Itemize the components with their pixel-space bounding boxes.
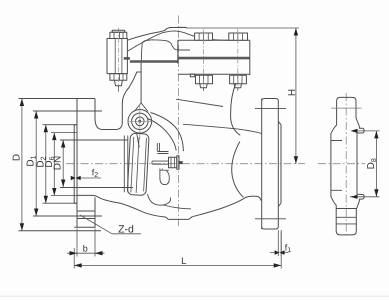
L arrows: [74, 263, 82, 267]
arrowheads: [20, 28, 379, 268]
cover bolt 2 stud end: [234, 84, 241, 91]
disc hub: nut: [169, 157, 177, 168]
b dimension line with tails: [67, 252, 105, 254]
D arrows: [20, 99, 24, 107]
seat ring: [124, 136, 128, 193]
side view bottom stub lines: [336, 209, 356, 224]
body flange under cover bottom edge: [137, 72, 250, 74]
right flange bolt lines: [255, 109, 286, 219]
disc plate: [127, 133, 149, 195]
D6 ext lines: [51, 133, 77, 196]
centerline vertical (front view): [178, 16, 180, 227]
L dimension line: [74, 264, 281, 266]
hinge arm inner curve: [148, 119, 177, 151]
body inner bottom line: [163, 205, 191, 209]
centerline horizontal (side view): [318, 163, 365, 165]
D2 arrows: [44, 125, 48, 133]
gasket band A (left step): [124, 57, 130, 60]
right flange main face: [277, 101, 279, 227]
right flange bottom edge: [262, 227, 279, 230]
D2 dimension line: [45, 125, 47, 204]
left bolt assembly: plate: [107, 39, 127, 74]
disc inner face line: [131, 137, 147, 194]
b arrows (pointing inward from outside): [70, 251, 78, 255]
D extension line bottom: [19, 230, 102, 232]
D2 ext lines: [43, 125, 78, 204]
disc hub: stud shaft: [152, 161, 169, 164]
f1 leaders: [270, 252, 289, 254]
right flange back: [261, 99, 263, 230]
left flange bottom edge: [74, 226, 95, 228]
D1 dimension line: [35, 111, 37, 216]
svg-text:b: b: [83, 244, 88, 254]
left bolt: top washer cap: [112, 30, 125, 32]
f1 extension lines: [278, 230, 281, 256]
centerline vertical (side view): [345, 93, 347, 237]
arm left small curve: [137, 133, 140, 148]
D8 extension lines: [350, 131, 380, 197]
hinge arm outer curve: [151, 113, 184, 152]
left bolt: stud end: [115, 80, 123, 86]
D8 arrows: [374, 131, 378, 139]
right hub top slope line: [183, 124, 262, 133]
cover left edge vertical: [177, 47, 179, 63]
b extension lines: [77, 229, 95, 257]
left flange main face: [76, 99, 78, 228]
D6 dimension line: [53, 133, 55, 196]
left bolt: bottom nut: [110, 74, 127, 81]
DN dimension line: [62, 140, 64, 187]
side view bolt dash line: [331, 107, 361, 109]
cover bolt 2 head: [229, 33, 248, 40]
svg-text:DN: DN: [52, 156, 63, 170]
Z-d underline and leader: [80, 215, 141, 234]
outlet lower arc: [232, 142, 244, 198]
left hub fillet top and neck outer left: [95, 72, 137, 129]
svg-text:D: D: [11, 154, 22, 161]
H extension top: [187, 27, 299, 29]
drain boss bottom: [163, 217, 193, 220]
svg-text:D8: D8: [366, 158, 378, 169]
hinge bracket top line: [141, 40, 190, 63]
lower tongue below disc: [148, 194, 171, 205]
D1 ext bottom: [33, 215, 102, 217]
bonnet lower curve: [127, 31, 229, 51]
cover bolt stud centerlines: [119, 28, 238, 93]
D8 dimension line: [375, 131, 377, 197]
H arrows: [294, 28, 298, 36]
left hub bottom line and bowl outline: [77, 195, 163, 216]
cover bolt 1 nut: [196, 75, 213, 84]
right flange top edge: [262, 99, 279, 102]
side view hub lines: [331, 141, 342, 191]
f2 bowtie arrows: [71, 176, 76, 181]
svg-text:f1: f1: [285, 243, 292, 255]
left flange bolt hole lines bottom: [77, 211, 95, 219]
bonnet cover plate: [178, 40, 250, 75]
left bolt: stud shaft lines: [115, 39, 122, 74]
left flange raised face: [74, 125, 77, 204]
hinge bracket tab below flange: [190, 74, 194, 77]
D6 arrows: [52, 133, 56, 141]
hinge bracket hanging lines: [140, 63, 142, 103]
bonnet outer curve with hump plateau: [127, 27, 186, 40]
D8 ext leader arrows: [351, 129, 358, 133]
svg-text:f2: f2: [92, 168, 99, 180]
right flange raised face: [278, 122, 281, 207]
svg-text:L: L: [181, 256, 186, 267]
left flange back: [94, 99, 96, 228]
outlet upper arc: [231, 83, 241, 135]
gasket band C (cover joint): [178, 57, 250, 60]
bottom border band: [0, 296, 389, 298]
D dimension line: [21, 99, 23, 231]
body bottom right outline rising to right hub: [192, 196, 261, 217]
side view outline: [331, 97, 364, 235]
cover bolt 1 head: [195, 33, 213, 40]
D1 arrows: [34, 111, 38, 119]
hinge bracket gable: [134, 103, 148, 112]
f1 bowtie arrows: [275, 250, 280, 255]
DN ext / bore lines: [60, 140, 133, 188]
left flange bolt line top (D1 ext): [33, 110, 102, 112]
svg-text:Z-d: Z-d: [118, 224, 134, 236]
cover bolt 2 nut: [230, 75, 247, 84]
body inner top line: [176, 99, 223, 106]
gasket band B (bracket clamp): [130, 60, 178, 63]
L extension lines: [74, 232, 281, 269]
disc hub: washer: [177, 156, 179, 170]
hinge boss centerlines: [128, 104, 153, 139]
disc hub: arm end: [157, 143, 168, 154]
DN arrows: [61, 140, 65, 148]
left bolt: top nut: [110, 32, 127, 38]
f2 leader: [81, 177, 101, 179]
cover bolt 1 stud end: [200, 84, 207, 91]
arm lower lobe: [160, 169, 169, 185]
H dimension line: [295, 28, 297, 164]
hinge pin boss circles: [128, 110, 152, 134]
svg-text:H: H: [287, 89, 298, 96]
centerline horizontal (front view): [66, 16, 365, 238]
left flange top edge with D extension line: [19, 98, 96, 100]
disc hub: stud end tick: [179, 161, 183, 164]
